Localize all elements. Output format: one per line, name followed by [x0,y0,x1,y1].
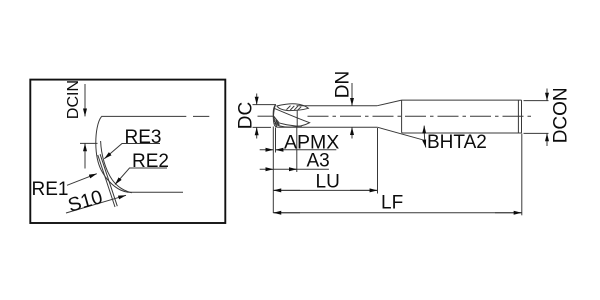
cutter flute land hatch [287,106,302,111]
dimension A3 line [260,168,329,170]
dimension A3 left arrow [266,168,273,170]
dimension APMX left arrow [266,149,273,151]
leader S10 [66,195,126,213]
cutter upper flute leaf [277,104,309,111]
taper bottom line with extension [377,127,424,140]
dimension DCON bottom arrow [546,133,548,146]
extension line LF right [521,134,523,216]
extension line LU right [377,128,379,194]
dimension LU arrows [273,189,300,191]
dimension DC top extension [253,104,277,106]
svg-text:A3: A3 [307,151,330,172]
detail view frame box [30,80,225,223]
svg-text:S10: S10 [66,186,106,217]
dimension DC bottom extension [253,126,272,128]
dimension DCIN lower extension tick [80,142,98,144]
dimension APMX line [260,149,337,151]
dimension LF line [273,212,521,214]
dimension DN top arrow [351,83,353,106]
shank start edge [401,100,403,133]
leader RE2 [115,168,167,185]
cutter lower flute sweep [274,108,310,127]
leader RE1 [67,174,97,186]
shank end face lines [518,100,521,133]
extension line A3 right [296,127,298,172]
detail bottom end-face line [129,191,184,193]
leader RE3 [104,144,160,159]
shank top line [402,99,522,101]
taper top line [377,100,401,106]
svg-text:LF: LF [381,193,403,214]
cutter head front face [273,105,278,128]
neck top line [297,105,378,107]
dimension LU line [273,189,377,191]
dimension DCON top extension [524,100,549,102]
detail secondary profile curve RE2 [101,141,132,193]
angle arc BHTA2 [424,126,426,148]
cutter lower flute inner line [276,122,302,127]
dimension LF arrows [273,212,300,214]
shank bottom line [402,132,522,134]
dimension APMX right arrow [276,149,282,151]
cutter head-neck junction line [296,111,298,128]
detail surface line [101,115,209,117]
extension line tool tip APMX left [272,127,274,213]
svg-text:DCON: DCON [551,87,572,143]
svg-text:DN: DN [332,71,353,98]
svg-text:LU: LU [316,172,340,193]
cutter head front facet curve [274,105,277,127]
dimension A3 right arrow [290,168,297,170]
dimension DC bottom arrow [256,127,258,138]
dimension DCIN lower arrow [84,143,86,168]
tool centerline axis [308,115,534,117]
neck bottom line [278,126,377,128]
svg-text:RE2: RE2 [132,151,169,172]
dimension DCIN upper arrow [84,84,86,116]
detail chamfer line S second [100,154,117,206]
detail main profile curve RE1 [96,117,129,193]
cutter head end tooth wedge [274,116,280,125]
tool centerline axis left stub [258,115,274,117]
svg-text:DC: DC [236,102,257,129]
svg-text:BHTA2: BHTA2 [427,132,487,153]
svg-text:DCIN: DCIN [65,80,82,119]
extension line APMX right [275,128,277,153]
detail chamfer line S [98,155,115,207]
svg-text:RE1: RE1 [32,179,69,200]
dimension DCON top arrow [546,89,548,101]
dimension DCON bottom extension [524,132,549,134]
dimension DN bottom arrow [351,127,353,138]
svg-text:RE3: RE3 [125,127,162,148]
dimension DC top arrow [256,94,258,105]
